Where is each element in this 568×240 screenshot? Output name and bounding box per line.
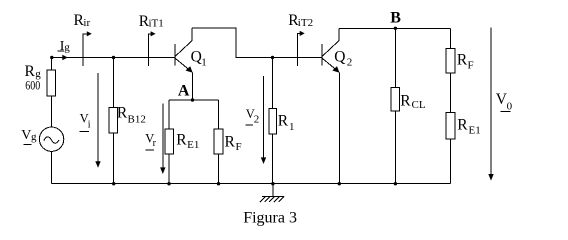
svg-text:i: i: [88, 120, 91, 131]
wire RB12 top: [113, 58, 115, 108]
resistor RE1 right body: [446, 113, 455, 139]
underline Vg: [24, 143, 32, 145]
svg-text:R: R: [117, 105, 128, 122]
wire RB12 bottom: [113, 133, 115, 184]
transistor Q1 base bar: [174, 44, 176, 66]
resistor RCL body: [391, 88, 399, 112]
arrowhead Q1 emitter: [186, 66, 193, 73]
wire main input rail y=57.5: [52, 57, 176, 59]
arrowhead V2: [261, 157, 266, 164]
junction dot RB12 top: [112, 56, 115, 59]
junction dot R1 top: [271, 56, 274, 59]
arrow V2 line: [263, 76, 265, 158]
wire right branch top: [449, 28, 451, 48]
junction dot Q2 emitter rail: [338, 182, 341, 185]
svg-text:CL: CL: [412, 99, 426, 111]
resistor Rg body: [47, 70, 56, 96]
resistor RF left body: [214, 129, 223, 154]
svg-text:ir: ir: [83, 17, 90, 29]
wire bottom rail: [52, 183, 451, 185]
wire RCL bottom: [394, 111, 396, 184]
underline Vi: [80, 130, 90, 132]
svg-text:B12: B12: [128, 114, 146, 126]
svg-text:V: V: [21, 128, 31, 143]
svg-text:E1: E1: [469, 124, 481, 136]
svg-text:Q: Q: [191, 48, 202, 65]
arrowhead Q2 emitter: [332, 66, 339, 73]
arrow Rir probe: [83, 34, 87, 66]
ground bar: [262, 196, 284, 198]
junction dot RE1 left bottom: [167, 182, 170, 185]
node B dot: [394, 27, 397, 30]
svg-text:F: F: [236, 141, 242, 153]
svg-text:R: R: [176, 132, 187, 149]
junction dot Rg node: [50, 56, 53, 59]
arrow V0 line: [490, 28, 492, 175]
wire Rg to source: [51, 96, 53, 127]
svg-text:2: 2: [254, 114, 259, 126]
underline Vr: [145, 149, 154, 151]
svg-text:2: 2: [347, 57, 353, 69]
underline Ig: [58, 50, 65, 52]
junction dot RB12 bottom: [112, 182, 115, 185]
svg-text:A: A: [178, 82, 190, 99]
svg-text:F: F: [468, 59, 474, 71]
svg-text:R: R: [457, 52, 468, 69]
arrow RiT2 probe: [298, 33, 301, 66]
wire RF to RE1 right: [449, 73, 451, 113]
wire stage1 top rail: [192, 28, 322, 58]
wire A to RF: [218, 100, 220, 129]
svg-text:1: 1: [289, 121, 295, 133]
wire B to RCL: [394, 28, 396, 87]
svg-text:Figura 3: Figura 3: [243, 210, 297, 227]
wire A to RE1: [168, 100, 170, 129]
transistor Q1 emitter diagonal: [176, 59, 189, 69]
junction dot RF left bottom: [217, 182, 220, 185]
wire RE1 to rail: [168, 154, 170, 184]
svg-text:R: R: [225, 133, 236, 150]
wire R1 bottom: [272, 134, 274, 184]
svg-text:600: 600: [25, 78, 40, 93]
wire RE1 right to rail: [449, 139, 451, 184]
underline V2: [245, 124, 253, 126]
svg-text:E1: E1: [187, 139, 199, 151]
node A dot: [191, 98, 194, 101]
ground stub: [272, 184, 274, 197]
transistor Q2 collector diagonal: [323, 41, 340, 57]
svg-text:R: R: [400, 92, 411, 109]
svg-text:Q: Q: [334, 49, 345, 66]
transistor Q1 collector diagonal: [176, 41, 193, 57]
svg-text:R: R: [457, 117, 468, 134]
source Vg sine wave: [44, 137, 59, 144]
svg-text:iT2: iT2: [298, 17, 313, 29]
wire R1 top: [272, 58, 274, 109]
source Vg circle: [39, 127, 63, 151]
transistor Q2 base bar: [321, 44, 323, 66]
wire node A bar: [169, 99, 219, 101]
svg-text:g: g: [64, 41, 70, 53]
wire source to ground rail: [51, 151, 53, 183]
junction dot ground: [271, 182, 274, 185]
arrowhead Vr: [160, 167, 165, 174]
wire Q1 collector riser: [191, 28, 193, 41]
wire Rg branch down from node: [51, 58, 53, 71]
arrow RiT1 probe: [149, 34, 152, 66]
underline V0: [501, 110, 511, 112]
resistor RE1 left body: [165, 129, 174, 154]
resistor RB12 body: [109, 108, 117, 134]
arrowhead RiT1: [151, 31, 156, 36]
wire Q2 emitter to rail: [338, 73, 340, 184]
arrowhead V0: [488, 174, 493, 181]
resistor R1 body: [269, 108, 277, 134]
arrowhead Vi: [95, 161, 100, 168]
arrowhead Rir: [87, 31, 92, 36]
svg-text:0: 0: [507, 101, 513, 113]
arrowhead RiT2: [300, 31, 305, 36]
wire Q1 emitter down to node A: [192, 73, 194, 100]
svg-text:R: R: [278, 113, 289, 130]
transistor Q2 emitter diagonal: [323, 59, 336, 69]
arrow Vr line: [162, 104, 164, 168]
arrowhead Ig: [62, 55, 68, 60]
ground hatch: [260, 197, 284, 203]
junction dot RCL bottom: [394, 182, 397, 185]
svg-text:1: 1: [201, 57, 207, 69]
wire RF to rail: [218, 154, 220, 184]
wire Q2 collector riser: [338, 28, 340, 40]
svg-text:B: B: [390, 10, 401, 27]
svg-text:g: g: [31, 131, 37, 143]
svg-text:r: r: [153, 138, 157, 149]
svg-text:iT1: iT1: [149, 18, 164, 30]
arrow Vi line: [97, 73, 99, 162]
resistor RF right body: [446, 48, 455, 73]
wire stage2 top rail: [339, 27, 450, 29]
